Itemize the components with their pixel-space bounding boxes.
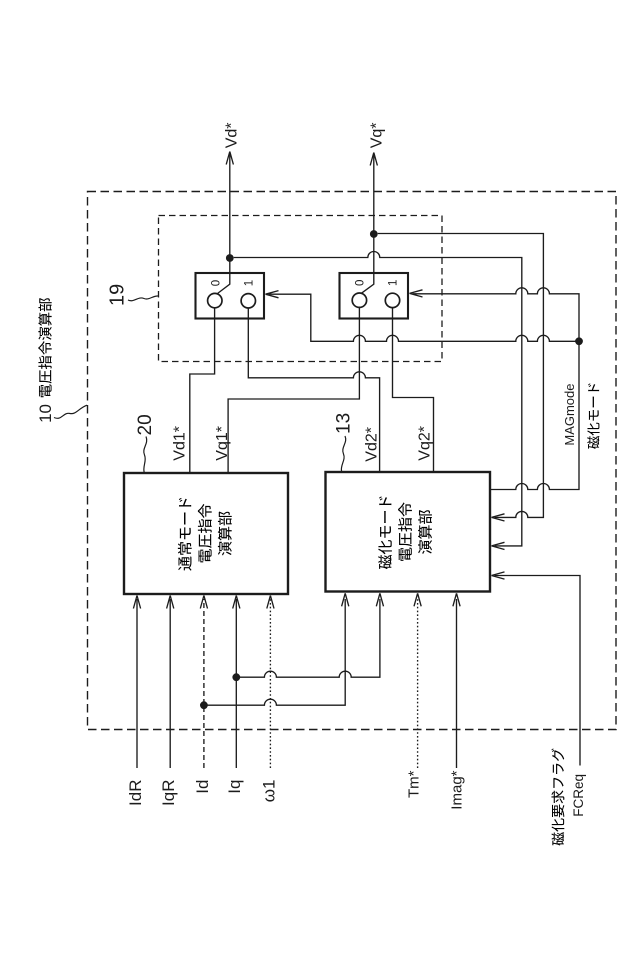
arrowhead Id into block13 xyxy=(342,593,349,606)
junction dot MAGmode node xyxy=(575,337,583,345)
junction dot on Id line xyxy=(200,701,208,709)
svg-text:Imag*: Imag* xyxy=(448,770,465,809)
switch box SW1 (Vd select) xyxy=(196,273,265,319)
svg-text:0: 0 xyxy=(211,280,223,286)
wire Id branch to block13 (hops ω1) xyxy=(204,599,345,705)
wire Iq input xyxy=(235,599,237,768)
svg-text:19: 19 xyxy=(107,284,129,306)
wire Imag* input xyxy=(456,599,458,768)
wire IdR input xyxy=(136,599,138,768)
junction dot on Iq line xyxy=(232,673,240,681)
arrowhead IqR into block20 xyxy=(167,596,174,609)
wire Iq branch to block13 (hops ω1 and Id-branch riser) xyxy=(236,599,380,677)
arrowhead FCReq into block13 xyxy=(492,572,505,579)
SW1 lever wire xyxy=(218,258,230,294)
wire Vq* output xyxy=(373,154,375,235)
svg-text:Tm*: Tm* xyxy=(406,770,423,798)
label 10 電圧指令演算部 (unit name, rotated) xyxy=(36,298,55,423)
arrowhead Tm* into block13 xyxy=(414,593,421,606)
switch box SW2 (Vq select) xyxy=(340,273,409,319)
arrowhead ω1 into block20 xyxy=(267,596,274,609)
svg-text:Vq*: Vq* xyxy=(368,123,385,149)
block 20 通常モード電圧指令演算部 xyxy=(124,473,288,594)
leader squiggle for 19 xyxy=(128,296,158,301)
svg-text:Vq2*: Vq2* xyxy=(417,426,434,461)
svg-text:0: 0 xyxy=(355,280,367,286)
arrowhead into block13 right (Vq*) xyxy=(492,514,505,521)
wire Vq* feedback to block 13 (hops line A) xyxy=(378,234,544,518)
arrowhead Iq into block13 xyxy=(376,593,383,606)
svg-text:Vd1*: Vd1* xyxy=(171,426,188,461)
wire Vq2* from block13 to SW2-1 xyxy=(393,308,434,472)
wire FCReq input to block13 xyxy=(495,576,581,766)
svg-text:13: 13 xyxy=(334,413,355,434)
svg-text:ω1: ω1 xyxy=(259,780,278,803)
svg-text:1: 1 xyxy=(244,280,256,286)
wire MAGmode select to SW1 (hops B, A, SW2 drop wires) xyxy=(269,294,580,341)
leader squiggle for 20 xyxy=(144,437,147,473)
wire Vd1* from block20 to SW1-0 xyxy=(190,308,215,473)
svg-text:Id: Id xyxy=(193,780,212,794)
svg-text:Vd*: Vd* xyxy=(223,123,240,149)
wire IqR input xyxy=(169,599,171,768)
wire Vd2* from block13 to SW1-1 (hops SW2-0 wire) xyxy=(248,308,379,472)
arrowhead into SW2 xyxy=(410,290,423,297)
arrowhead IdR into block20 xyxy=(133,596,140,609)
label 磁化モード (MAG mode) xyxy=(587,436,599,449)
wire MAGmode select to SW2 (hops B and A) xyxy=(413,288,580,342)
svg-text:Iq: Iq xyxy=(225,780,244,794)
SW1 contact circle 0 xyxy=(208,293,222,307)
arrowhead Vq* xyxy=(370,153,377,166)
leader squiggle for 13 xyxy=(341,436,345,472)
arrowhead into block13 right (Vd*) xyxy=(492,542,505,549)
wire ω1 input xyxy=(269,599,271,768)
block 20 text xyxy=(178,498,232,571)
arrowhead Id into block20 xyxy=(200,596,207,609)
svg-text:1: 1 xyxy=(388,280,400,286)
outer dashed box (voltage command calc unit 10) xyxy=(88,192,617,730)
wire Vq1* from block20 to SW2-0 xyxy=(228,308,359,474)
wire Id input xyxy=(203,599,205,768)
arrowhead Imag* into block13 xyxy=(453,593,460,606)
block 13 磁化モード電圧指令演算部 xyxy=(326,472,491,592)
label 磁化要求フラグ xyxy=(552,832,565,845)
svg-text:FCReq: FCReq xyxy=(571,774,586,817)
arrowhead Iq into block20 xyxy=(233,596,240,609)
svg-text:IdR: IdR xyxy=(126,780,145,806)
svg-text:20: 20 xyxy=(135,414,156,435)
leader squiggle for 10 xyxy=(54,405,87,418)
SW1 contact circle 1 xyxy=(241,294,255,308)
svg-text:10: 10 xyxy=(36,404,55,423)
wire Tm* input xyxy=(417,599,419,768)
arrowhead Vd* xyxy=(226,152,233,165)
inner dashed box (switch unit 19) xyxy=(159,216,443,362)
junction dot on Vq* line xyxy=(370,230,378,238)
svg-text:Vd2*: Vd2* xyxy=(364,427,381,462)
wire Vd* output xyxy=(229,153,231,259)
svg-text:Vq1*: Vq1* xyxy=(214,426,231,461)
wire Vd* feedback to block 13 (hops Vq* line) xyxy=(234,252,522,546)
junction dot on Vd* line xyxy=(226,254,234,262)
SW2 contact circle 1 xyxy=(385,293,399,307)
SW2 contact circle 0 xyxy=(352,293,366,307)
svg-text:IqR: IqR xyxy=(159,780,178,806)
SW2 lever wire xyxy=(362,234,374,293)
arrowhead into SW1 xyxy=(266,291,279,298)
svg-text:MAGmode: MAGmode xyxy=(562,384,577,446)
block 13 text xyxy=(378,496,432,569)
wire MAGmode output from block 13 (hops lines A and B) xyxy=(490,341,579,489)
